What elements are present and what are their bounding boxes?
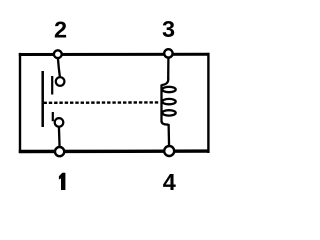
relay case outline: bottom border: [19, 149, 210, 153]
terminal 4: [164, 146, 174, 156]
relay case outline: right border: [207, 53, 209, 153]
terminal 1: [55, 147, 64, 156]
wire: coil bottom to terminal 4: [167, 124, 170, 148]
upper contact circle: [56, 77, 65, 86]
svg-text:4: 4: [163, 169, 176, 195]
upper fixed contact bar: [51, 76, 53, 95]
svg-text:3: 3: [162, 16, 175, 42]
relay case outline: top border: [19, 53, 210, 56]
switch armature: [41, 71, 44, 127]
terminal 3: [164, 49, 172, 57]
svg-text:2: 2: [54, 16, 67, 42]
coil L1: [162, 78, 176, 125]
wire: lower contact to terminal 1: [58, 126, 61, 148]
lower contact circle: [55, 118, 64, 127]
terminal 2: [54, 50, 62, 58]
wire: terminal 2 to upper contact: [58, 57, 60, 77]
mechanical link (dashed): [44, 101, 161, 104]
pin label 1: [59, 173, 66, 190]
wire: terminal 3 to coil top: [167, 57, 169, 79]
lower fixed contact bar: [52, 112, 54, 121]
relay case outline: left border: [19, 53, 21, 153]
